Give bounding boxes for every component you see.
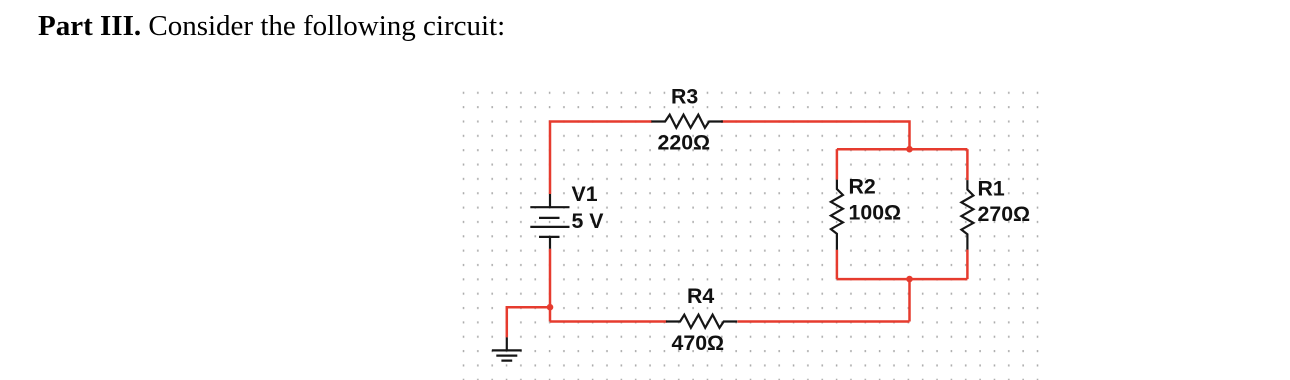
resistor R4 (470 ohm, horizontal, bottom) (666, 315, 737, 328)
svg-text:R2: R2 (849, 175, 876, 199)
svg-text:R4: R4 (687, 284, 714, 308)
wire: node to ground (507, 307, 550, 337)
junction node: bottom of parallel block (906, 276, 913, 283)
battery V1 leads (549, 194, 551, 249)
ground lead (506, 337, 508, 350)
svg-text:220Ω: 220Ω (658, 131, 711, 155)
ground symbol (492, 350, 522, 360)
junction node: top of parallel block (906, 146, 913, 153)
svg-text:5 V: 5 V (572, 209, 605, 233)
svg-text:270Ω: 270Ω (978, 202, 1031, 226)
svg-text:R3: R3 (671, 85, 698, 109)
wire: top-left from battery up and right to R3 (550, 122, 652, 195)
wire: battery bottom to node (549, 249, 552, 308)
wire: R3 right to top-right corner, down to parallel block (721, 122, 909, 150)
wire: R2 top lead (left branch) (836, 149, 839, 179)
resistor R1 (270 ohm, vertical, right of parallel pair) (961, 180, 973, 250)
svg-text:R1: R1 (978, 177, 1005, 201)
wire: node down to bottom rail (549, 307, 552, 321)
resistor R3 (220 ohm, horizontal, top) (651, 115, 723, 128)
wire: R2 bottom lead (836, 250, 839, 279)
junction node: battery/ground/bottom rail (547, 304, 554, 311)
svg-text:470Ω: 470Ω (672, 331, 725, 355)
wire: R1 top lead (right branch) (966, 149, 969, 180)
battery V1 plates (530, 207, 569, 237)
wire: parallel block top edge (837, 148, 968, 151)
wire: R1 bottom lead (966, 250, 969, 280)
wire: parallel block bottom edge (837, 278, 968, 281)
svg-text:V1: V1 (572, 182, 598, 206)
wire: bottom-right drop from parallel block to bottom rail (908, 279, 911, 321)
svg-text:100Ω: 100Ω (849, 201, 902, 225)
wire: bottom rail right of R4 (737, 320, 909, 323)
resistor R2 (100 ohm, vertical, left of parallel pair) (831, 180, 843, 250)
wire: bottom rail left of R4 (550, 320, 667, 323)
title text (38, 12, 505, 41)
